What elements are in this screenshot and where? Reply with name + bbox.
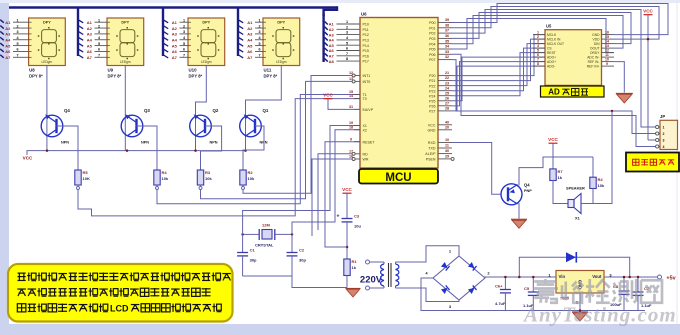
- wire X1 to MCU: [243, 126, 360, 235]
- svg-text:P05: P05: [429, 48, 435, 52]
- wire P06 to connector pin4: [452, 54, 657, 146]
- svg-text:31: 31: [349, 105, 353, 109]
- wire P07 to connector pin2: [452, 60, 657, 134]
- analog ground triangle: [616, 94, 633, 104]
- left margin strip: [0, 0, 9, 335]
- svg-text:2: 2: [16, 24, 18, 28]
- wire R2 to MCU INT1: [243, 76, 353, 194]
- svg-text:LEDgrn: LEDgrn: [41, 60, 52, 64]
- svg-text:A7: A7: [247, 55, 253, 60]
- svg-text:P16: P16: [363, 54, 369, 58]
- svg-text:A3: A3: [329, 32, 335, 37]
- wire bridge plus to +5v rail: [485, 277, 658, 278]
- wire P21 to AD pin 2: [452, 39, 545, 81]
- svg-text:A3: A3: [247, 32, 253, 37]
- svg-text:P26: P26: [429, 104, 435, 108]
- svg-text:C2: C2: [299, 248, 305, 253]
- svg-text:8: 8: [346, 57, 348, 61]
- wire R4 to MCU T1: [157, 95, 360, 204]
- seven-segment display U10: [188, 18, 225, 66]
- node VCC to AD VDD: [647, 38, 650, 41]
- AD converter U5 body: [545, 30, 602, 86]
- svg-text:R7: R7: [558, 169, 564, 174]
- junction emitter Q3 on VCC rail: [126, 149, 129, 152]
- svg-text:MCLK IN: MCLK IN: [547, 38, 561, 42]
- svg-text:P07: P07: [429, 58, 435, 62]
- svg-text:7: 7: [16, 54, 18, 58]
- net label A4 to MCU P13: [325, 37, 328, 40]
- svg-text:4: 4: [663, 145, 665, 149]
- svg-text:20: 20: [445, 125, 449, 129]
- svg-text:X1: X1: [575, 216, 581, 221]
- svg-text:DOUT: DOUT: [590, 47, 599, 51]
- svg-text:A2: A2: [5, 26, 11, 31]
- svg-text:2: 2: [258, 24, 260, 28]
- svg-text:A6: A6: [87, 49, 93, 54]
- svg-text:12M: 12M: [262, 223, 270, 228]
- output terminal +5v: [658, 275, 662, 279]
- crystal Y1 12M: [243, 223, 292, 248]
- wire Q2 base to R3: [201, 126, 222, 169]
- svg-text:R2: R2: [248, 170, 254, 175]
- annotation line 1: [18, 273, 26, 280]
- svg-text:A5: A5: [87, 43, 93, 48]
- bridge diode D4: [441, 285, 450, 294]
- bridge rectifier diamond: [433, 256, 485, 300]
- svg-text:AnyTesting.com: AnyTesting.com: [522, 303, 677, 327]
- annotation line 3: [17, 304, 26, 312]
- svg-text:14: 14: [605, 39, 609, 43]
- net label A6 to MCU P15: [325, 48, 328, 51]
- svg-text:Q4: Q4: [64, 108, 70, 113]
- svg-text:10: 10: [445, 138, 449, 142]
- svg-text:A5: A5: [247, 43, 253, 48]
- wire R3 to MCU INT0: [201, 81, 353, 198]
- annotation line 2: [17, 289, 26, 296]
- AD converter yellow label: [541, 86, 605, 97]
- terminal circle under R2: [242, 187, 245, 190]
- capacitor C8 100uF: [623, 277, 625, 291]
- svg-text:30p: 30p: [299, 258, 306, 263]
- svg-text:MCU: MCU: [385, 172, 411, 184]
- svg-text:27: 27: [445, 101, 449, 105]
- terminal circle under R3: [199, 187, 202, 190]
- wire Q4 base to R5: [57, 126, 79, 169]
- net label A7 to MCU P16: [325, 53, 328, 56]
- svg-text:A2: A2: [247, 26, 253, 31]
- net label A8 to MCU P17: [325, 59, 328, 62]
- MCU left pin numbers and stubs: [349, 71, 360, 160]
- MCU pin RD wire: [318, 154, 353, 230]
- svg-text:9: 9: [606, 62, 608, 66]
- svg-text:P17: P17: [363, 60, 369, 64]
- display U11 pin A3 wire: [239, 32, 244, 35]
- svg-text:RESET: RESET: [363, 140, 376, 144]
- seven-segment display U9: [107, 18, 144, 66]
- svg-text:C1: C1: [250, 248, 256, 253]
- wire bridge minus to ground rail: [421, 278, 645, 311]
- svg-text:7: 7: [258, 54, 260, 58]
- svg-text:MCLK OUT: MCLK OUT: [547, 42, 564, 46]
- infrared sensor yellow label: [626, 153, 679, 172]
- svg-text:7: 7: [346, 52, 348, 56]
- wire P02 to connector pin1: [452, 10, 657, 128]
- capacitor C7 1.1uF: [637, 277, 639, 292]
- wire display to transistor Q2: [196, 66, 207, 151]
- resistor R3: [197, 169, 212, 187]
- display U9 pin A4 wire: [79, 37, 84, 40]
- display U11 pin A6 wire: [239, 49, 244, 52]
- svg-text:A4: A4: [247, 37, 253, 42]
- wire MCU RXD to Q4 base: [452, 143, 501, 195]
- net label A3 to MCU P12: [325, 32, 328, 35]
- display U8 pin A5 wire: [0, 43, 4, 46]
- svg-text:1: 1: [183, 18, 185, 22]
- svg-text:18: 18: [349, 125, 353, 129]
- svg-text:VCC: VCC: [342, 187, 352, 192]
- display U8 pin A3 wire: [0, 31, 4, 34]
- wire P01 to AD VDD: [452, 7, 659, 40]
- wire crystal ground rail: [243, 276, 347, 288]
- svg-text:A1: A1: [329, 22, 335, 27]
- wire P25 to AD pin 6: [452, 57, 545, 101]
- svg-text:SPEAKER: SPEAKER: [566, 186, 585, 191]
- svg-text:U5: U5: [546, 24, 552, 29]
- svg-text:6: 6: [183, 48, 185, 52]
- svg-text:P21: P21: [429, 79, 435, 83]
- svg-text:16: 16: [605, 30, 609, 34]
- display U11 pin A1 wire: [239, 20, 244, 23]
- svg-text:1: 1: [98, 18, 100, 22]
- svg-text:A7: A7: [172, 55, 178, 60]
- svg-text:7: 7: [537, 57, 539, 61]
- svg-text:3: 3: [346, 31, 348, 35]
- display U11 pin A4 wire: [239, 37, 244, 40]
- svg-text:DPY: DPY: [277, 21, 285, 25]
- svg-text:DPY 8*: DPY 8*: [189, 74, 203, 79]
- svg-text:P06: P06: [429, 53, 435, 57]
- svg-text:3: 3: [98, 30, 100, 34]
- bottom margin strip: [0, 324, 680, 335]
- svg-text:DPY: DPY: [202, 21, 210, 25]
- wire Q1 base to R2: [243, 126, 264, 169]
- svg-text:P14: P14: [363, 44, 369, 48]
- wire VCC to connector pin3: [648, 139, 656, 141]
- wire P24 to AD pin 5: [452, 53, 545, 96]
- wire R5 to MCU T0: [78, 99, 360, 216]
- bus drop for display group 4: [237, 8, 239, 57]
- svg-text:C3: C3: [354, 214, 360, 219]
- svg-text:36: 36: [445, 34, 449, 38]
- transistor Q2: [190, 108, 219, 145]
- svg-text:ADO+: ADO+: [547, 60, 556, 64]
- bus main horizontal: [9, 6, 337, 9]
- wire P20 to AD pin 1: [452, 35, 545, 76]
- svg-text:5: 5: [537, 48, 539, 52]
- node crystal left: [241, 233, 244, 236]
- svg-text:LCD: LCD: [110, 303, 129, 313]
- svg-text:3: 3: [258, 30, 260, 34]
- svg-text:P02: P02: [429, 32, 435, 36]
- svg-text:P10: P10: [363, 23, 369, 27]
- svg-text:A7: A7: [87, 55, 93, 60]
- MCU yellow label: [359, 169, 438, 184]
- transistor Q1: [240, 108, 269, 145]
- bridge diode D3: [441, 262, 450, 271]
- svg-text:A6: A6: [329, 48, 335, 53]
- svg-text:P11: P11: [363, 28, 369, 32]
- svg-text:A2: A2: [329, 27, 335, 32]
- svg-text:2: 2: [183, 24, 185, 28]
- svg-text:VCC: VCC: [23, 156, 33, 161]
- svg-text:A6: A6: [247, 49, 253, 54]
- svg-text:1: 1: [346, 20, 348, 24]
- svg-text:7: 7: [98, 54, 100, 58]
- svg-text:LEDgrn: LEDgrn: [276, 60, 287, 64]
- svg-text:1: 1: [258, 18, 260, 22]
- display U9 pin A3 wire: [79, 32, 84, 35]
- wire transformer to bridge bottom: [396, 288, 460, 302]
- resistor R2: [240, 169, 255, 187]
- svg-text:P00: P00: [429, 21, 435, 25]
- svg-text:R5: R5: [83, 170, 89, 175]
- wire P27 to AD pin 8: [452, 66, 545, 111]
- svg-text:10: 10: [605, 57, 609, 61]
- terminal circle under R5: [77, 187, 80, 190]
- svg-text:VCC: VCC: [323, 93, 333, 98]
- svg-text:21: 21: [445, 71, 449, 75]
- svg-text:NPN: NPN: [61, 141, 69, 145]
- svg-text:A5: A5: [5, 43, 11, 48]
- svg-text:3: 3: [663, 138, 665, 142]
- svg-text:DRDY: DRDY: [590, 51, 600, 55]
- svg-text:5: 5: [183, 42, 185, 46]
- wire Q4 collector to speaker rail: [519, 157, 593, 186]
- svg-text:GND: GND: [428, 128, 436, 132]
- svg-text:DPY: DPY: [121, 21, 129, 25]
- capacitor C5 0.1uF: [532, 277, 534, 292]
- wire regulator GND to ground: [579, 293, 581, 312]
- svg-text:DPY: DPY: [43, 21, 51, 25]
- svg-text:C5: C5: [524, 286, 530, 291]
- svg-text:A8: A8: [329, 59, 335, 64]
- svg-text:6: 6: [258, 48, 260, 52]
- wire P04 to AD DOUT: [452, 16, 623, 49]
- display U10 pin A4 wire: [164, 37, 169, 40]
- transformer T1: [370, 262, 399, 288]
- svg-text:+5v: +5v: [666, 276, 675, 282]
- svg-text:33: 33: [445, 50, 449, 54]
- display U11 pin A2 wire: [239, 26, 244, 29]
- display U8 pin A4 wire: [0, 37, 4, 40]
- svg-text:220V: 220V: [360, 275, 383, 286]
- svg-text:A4: A4: [5, 37, 11, 42]
- display U11 pin A5 wire: [239, 43, 244, 46]
- svg-text:30p: 30p: [250, 258, 257, 263]
- svg-text:1: 1: [537, 30, 539, 34]
- svg-text:LEDgrn: LEDgrn: [120, 60, 131, 64]
- svg-text:A5: A5: [172, 43, 178, 48]
- svg-text:P13: P13: [363, 39, 369, 43]
- capacitor C3 10u: [337, 214, 362, 229]
- power VCC above C3: [342, 187, 352, 193]
- resistor R1 1k: [344, 258, 358, 278]
- terminal 220V bottom: [366, 286, 370, 290]
- svg-text:U8: U8: [29, 68, 35, 73]
- svg-text:P24: P24: [429, 94, 435, 98]
- svg-text:A2: A2: [172, 26, 178, 31]
- wire RESET to MCU: [325, 142, 360, 247]
- svg-text:3: 3: [537, 39, 539, 43]
- svg-text:AD: AD: [548, 87, 560, 96]
- svg-text:A4: A4: [329, 38, 335, 43]
- svg-text:DPY 8*: DPY 8*: [108, 74, 122, 79]
- svg-text:9: 9: [350, 137, 352, 141]
- connector pins: [656, 125, 665, 149]
- svg-text:U11: U11: [264, 68, 272, 73]
- svg-text:REF IN+: REF IN+: [587, 65, 600, 69]
- svg-text:CRYSTAL: CRYSTAL: [255, 243, 274, 248]
- bus drop for display group 3: [162, 8, 164, 57]
- svg-text:LEDgrn: LEDgrn: [201, 60, 212, 64]
- display U8 pin A6 wire: [0, 49, 4, 52]
- net label A5 to MCU P14: [325, 43, 328, 46]
- svg-text:RXD: RXD: [428, 141, 436, 145]
- wire speaker right to riser: [581, 111, 612, 204]
- display U8 pin A2 wire: [0, 26, 4, 29]
- svg-text:11: 11: [445, 144, 449, 148]
- svg-text:ADO-: ADO-: [547, 65, 555, 69]
- svg-text:1: 1: [16, 18, 18, 22]
- svg-text:5: 5: [258, 42, 260, 46]
- seven-segment display U8: [29, 18, 66, 66]
- display U10 pin A3 wire: [164, 32, 169, 35]
- svg-text:P04: P04: [429, 42, 435, 46]
- svg-text:26: 26: [445, 96, 449, 100]
- svg-text:CS: CS: [547, 47, 552, 51]
- connector JP body: [660, 120, 678, 149]
- junction emitter Q4 on VCC rail: [46, 149, 49, 152]
- svg-text:A1: A1: [247, 20, 253, 25]
- wire P00 to AD GND: [452, 4, 668, 35]
- wire Q4 emitter to ground: [518, 203, 520, 219]
- svg-text:5: 5: [346, 41, 348, 45]
- svg-text:P25: P25: [429, 99, 435, 103]
- svg-text:JP: JP: [660, 114, 665, 119]
- svg-text:GND: GND: [592, 33, 600, 37]
- svg-text:P22: P22: [429, 84, 435, 88]
- svg-text:ADC IN-: ADC IN-: [587, 56, 599, 60]
- svg-text:38: 38: [445, 23, 449, 27]
- svg-text:+: +: [337, 214, 340, 220]
- bridge diode D2: [468, 285, 477, 294]
- svg-text:29: 29: [445, 155, 449, 159]
- svg-text:TXD: TXD: [428, 147, 436, 151]
- VCC rail left: [27, 151, 246, 155]
- junction emitter Q2 on VCC rail: [194, 149, 197, 152]
- svg-text:Vout: Vout: [592, 274, 602, 279]
- display U10 pin A2 wire: [164, 26, 169, 29]
- transistor Q4 PNP: [501, 183, 532, 205]
- capacitor C2 30p: [291, 234, 293, 252]
- bypass diode D5 over regulator: [519, 257, 629, 277]
- svg-text:10k: 10k: [162, 176, 169, 181]
- svg-text:A7: A7: [5, 55, 11, 60]
- svg-text:2: 2: [346, 25, 348, 29]
- resistor R4 10k speaker: [592, 157, 594, 176]
- svg-text:NPN: NPN: [210, 141, 218, 145]
- display U9 pin A7 wire: [79, 55, 84, 58]
- svg-text:23: 23: [445, 81, 449, 85]
- svg-text:MCLK: MCLK: [547, 33, 557, 37]
- transistor Q4: [41, 108, 70, 145]
- svg-text:DIN: DIN: [594, 42, 600, 46]
- bus drop for display group 2: [77, 8, 79, 57]
- svg-text:2: 2: [98, 24, 100, 28]
- wire P22 to AD pin 3: [452, 44, 545, 86]
- svg-text:EA/VP: EA/VP: [363, 108, 374, 112]
- svg-text:15: 15: [605, 35, 609, 39]
- svg-text:30: 30: [445, 149, 449, 153]
- display U9 pin A6 wire: [79, 49, 84, 52]
- svg-text:X2: X2: [363, 128, 367, 132]
- svg-text:A3: A3: [5, 32, 11, 37]
- resistor R5: [75, 169, 90, 187]
- svg-text:P23: P23: [429, 89, 435, 93]
- svg-text:6: 6: [16, 48, 18, 52]
- svg-text:Q4: Q4: [524, 183, 530, 188]
- svg-text:Q1: Q1: [263, 108, 269, 113]
- svg-text:T0: T0: [363, 97, 367, 101]
- svg-text:U9: U9: [108, 68, 114, 73]
- wire R7 to speaker: [553, 182, 568, 204]
- resistor R7 1k: [550, 167, 564, 182]
- svg-text:WR: WR: [363, 158, 369, 162]
- display U10 pin A6 wire: [164, 49, 169, 52]
- svg-text:R4: R4: [162, 170, 168, 175]
- bus corner to MCU label stack: [324, 6, 337, 16]
- bus vertical at MCU port1: [322, 14, 324, 62]
- wire display to transistor Q3: [124, 66, 126, 151]
- svg-text:2: 2: [537, 35, 539, 39]
- svg-text:Vin: Vin: [559, 274, 566, 279]
- svg-text:INT1: INT1: [363, 74, 371, 78]
- svg-text:A2: A2: [87, 26, 93, 31]
- svg-text:P15: P15: [363, 49, 369, 53]
- display U8 pin A1 wire: [0, 20, 4, 23]
- svg-text:4: 4: [537, 44, 539, 48]
- node speaker riser on P07 wire: [611, 110, 614, 113]
- terminal circle under R4: [156, 187, 159, 190]
- svg-text:P01: P01: [429, 26, 435, 30]
- MCU right pin names numbers stubs: [425, 18, 454, 161]
- svg-text:U6: U6: [361, 12, 367, 17]
- svg-text:10k: 10k: [598, 183, 605, 188]
- svg-text:RD: RD: [363, 152, 369, 156]
- svg-text:12: 12: [605, 48, 609, 52]
- wire AD REF IN- to analog ground: [614, 62, 624, 93]
- ground below regulator: [572, 312, 588, 321]
- junction emitter Q1 on VCC rail: [244, 149, 247, 152]
- svg-text:1k: 1k: [352, 265, 357, 270]
- svg-text:A4: A4: [172, 37, 178, 42]
- svg-text:VDD: VDD: [593, 38, 601, 42]
- display U9 pin A1 wire: [79, 20, 84, 23]
- svg-text:INT0: INT0: [363, 80, 371, 84]
- svg-text:32: 32: [445, 55, 449, 59]
- resistor R4: [154, 169, 169, 187]
- svg-text:7: 7: [183, 54, 185, 58]
